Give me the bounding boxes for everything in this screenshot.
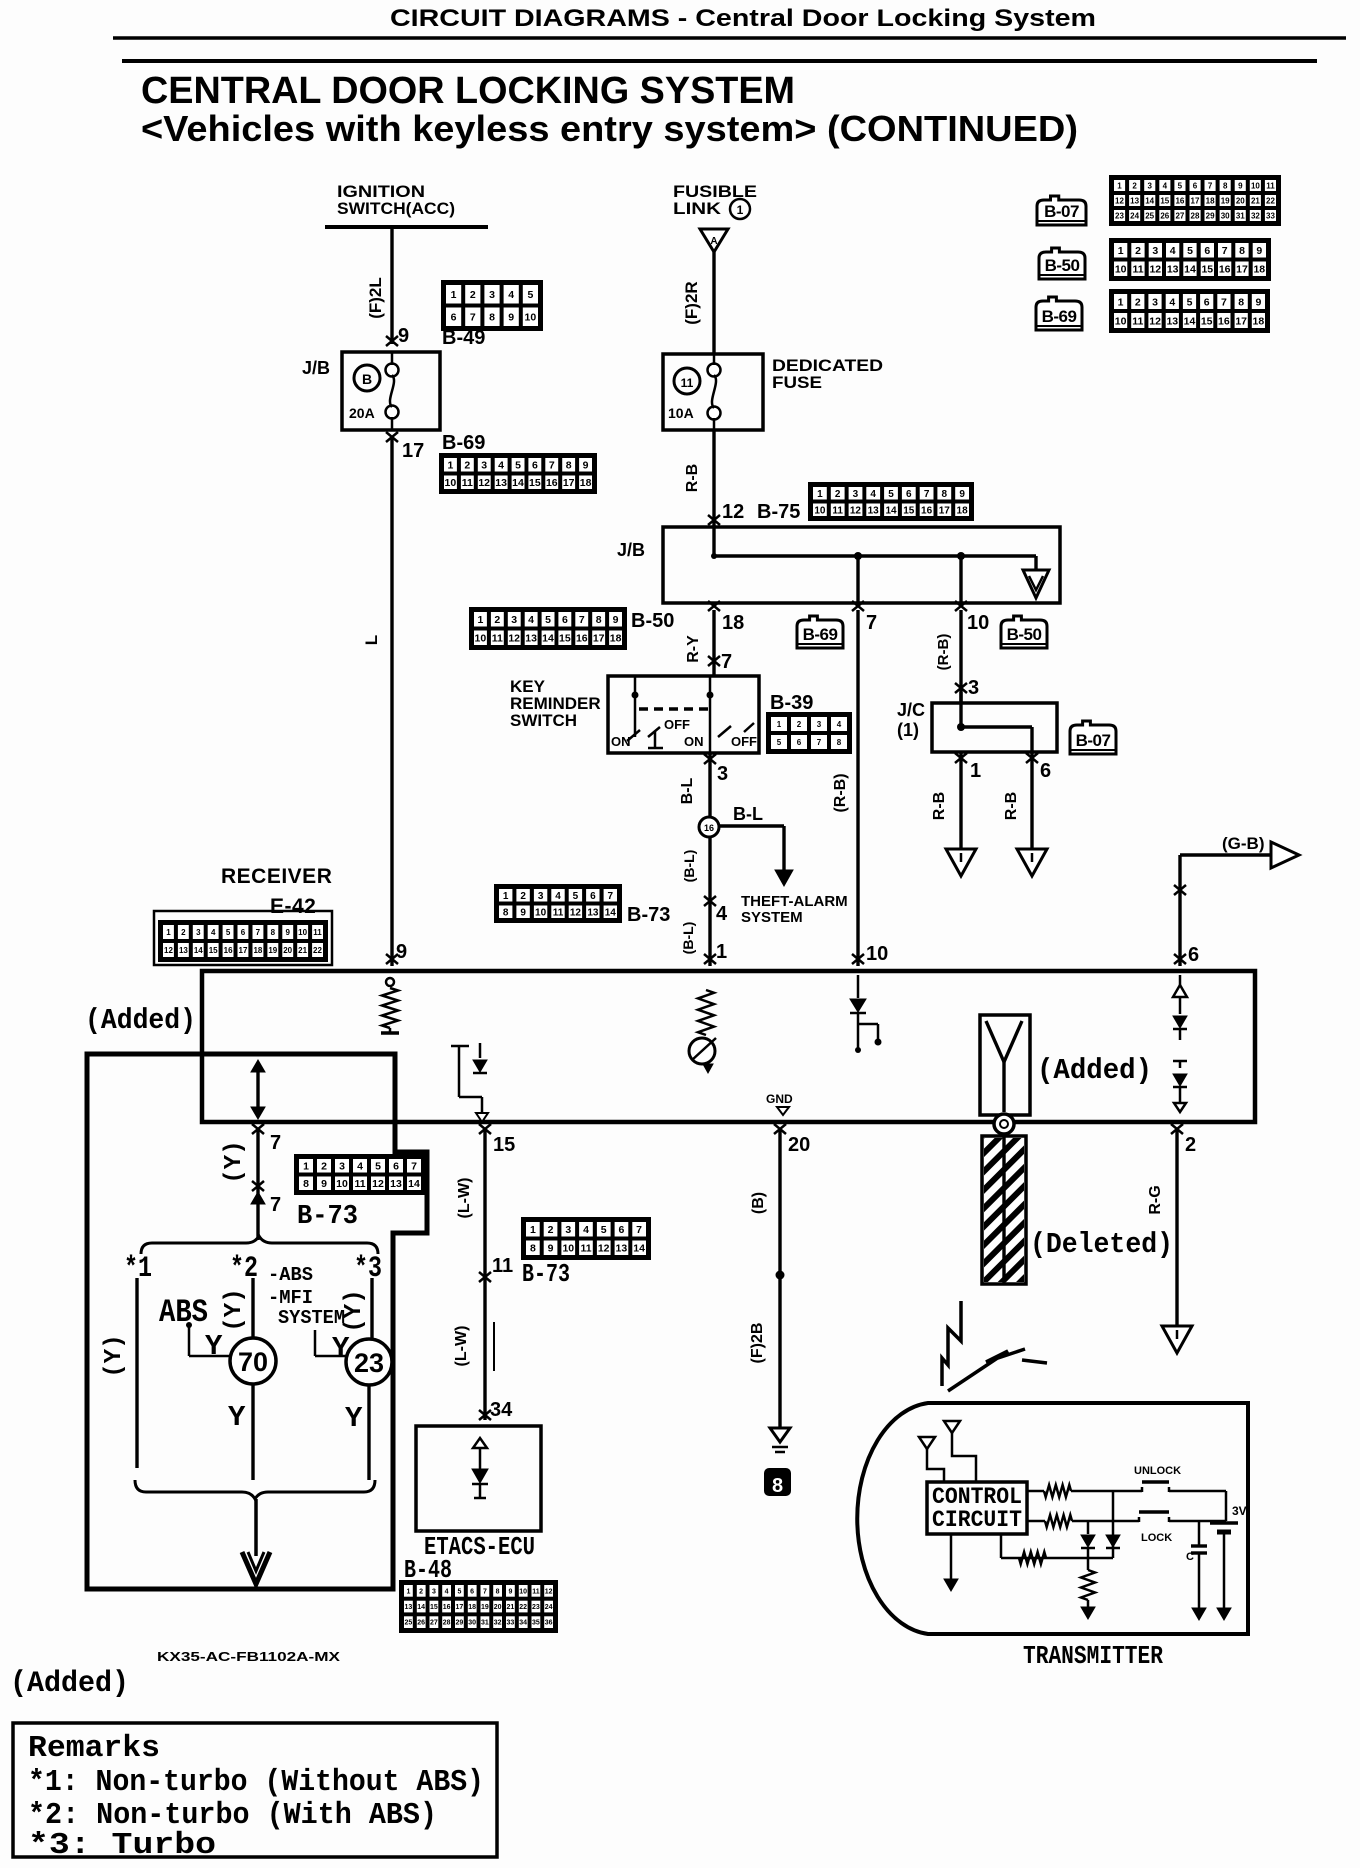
svg-text:CIRCUIT DIAGRAMS - Central Doo: CIRCUIT DIAGRAMS - Central Door Locking … [390, 5, 1096, 32]
svg-text:8: 8 [942, 489, 948, 500]
svg-text:11: 11 [1132, 264, 1143, 276]
svg-text:1: 1 [1117, 181, 1122, 190]
svg-text:7: 7 [270, 1194, 281, 1216]
svg-text:15: 15 [493, 1134, 515, 1156]
svg-text:20: 20 [283, 946, 292, 955]
svg-text:34: 34 [490, 1399, 513, 1421]
svg-text:28: 28 [443, 1620, 451, 1627]
svg-text:LINK: LINK [673, 199, 722, 218]
svg-text:B-07: B-07 [1044, 202, 1079, 221]
svg-text:(R-B): (R-B) [832, 773, 849, 812]
svg-text:12: 12 [850, 505, 862, 516]
svg-text:4: 4 [583, 1224, 589, 1236]
svg-text:J/B: J/B [617, 540, 645, 560]
svg-text:3: 3 [481, 460, 487, 472]
svg-text:18: 18 [1253, 315, 1265, 327]
svg-text:FUSE: FUSE [772, 373, 822, 392]
svg-text:8: 8 [503, 907, 509, 918]
svg-text:16: 16 [546, 477, 558, 489]
svg-text:7: 7 [1221, 296, 1227, 308]
svg-text:10: 10 [519, 1588, 527, 1595]
svg-text:7: 7 [1222, 245, 1228, 257]
svg-text:13: 13 [405, 1604, 413, 1611]
svg-text:15: 15 [1201, 264, 1213, 276]
svg-text:5: 5 [1187, 245, 1193, 257]
svg-text:(B): (B) [750, 1192, 767, 1214]
svg-text:6: 6 [906, 489, 912, 500]
svg-text:6: 6 [590, 891, 596, 902]
svg-text:E-42: E-42 [270, 895, 316, 918]
svg-text:30: 30 [468, 1620, 476, 1627]
svg-text:2: 2 [797, 720, 802, 729]
svg-text:B-L: B-L [733, 804, 763, 824]
svg-text:9: 9 [613, 614, 619, 626]
svg-text:10: 10 [445, 477, 457, 489]
svg-text:24: 24 [1130, 211, 1139, 220]
svg-text:6: 6 [1204, 245, 1210, 257]
svg-text:7: 7 [924, 489, 930, 500]
svg-text:7: 7 [483, 1588, 487, 1595]
svg-text:8: 8 [772, 1475, 783, 1497]
svg-text:2: 2 [1132, 181, 1137, 190]
svg-text:(F)2L: (F)2L [366, 277, 385, 319]
svg-text:16: 16 [443, 1604, 451, 1611]
svg-text:13: 13 [525, 633, 537, 645]
svg-text:5: 5 [1178, 181, 1183, 190]
svg-text:2: 2 [835, 489, 841, 500]
svg-text:14: 14 [512, 477, 524, 489]
svg-text:A: A [710, 236, 717, 247]
svg-text:5: 5 [888, 489, 894, 500]
svg-text:7: 7 [866, 612, 877, 634]
svg-text:12: 12 [508, 633, 520, 645]
svg-text:6: 6 [393, 1161, 399, 1173]
svg-text:J/C: J/C [897, 700, 925, 720]
svg-text:10: 10 [814, 505, 826, 516]
svg-text:6: 6 [618, 1224, 624, 1236]
svg-text:18: 18 [957, 505, 969, 516]
svg-text:(Added): (Added) [85, 1004, 196, 1037]
svg-text:8: 8 [1239, 245, 1245, 257]
svg-text:B-50: B-50 [1045, 256, 1080, 275]
svg-text:14: 14 [605, 907, 617, 918]
svg-text:CENTRAL DOOR LOCKING SYSTEM: CENTRAL DOOR LOCKING SYSTEM [141, 70, 795, 112]
svg-text:4: 4 [870, 489, 876, 500]
svg-text:16: 16 [1175, 196, 1184, 205]
svg-text:B-49: B-49 [442, 327, 485, 349]
svg-text:15: 15 [529, 477, 541, 489]
svg-text:3: 3 [717, 763, 728, 785]
svg-text:Remarks: Remarks [28, 1731, 160, 1766]
svg-text:21: 21 [298, 946, 307, 955]
svg-text:8: 8 [496, 1588, 500, 1595]
svg-text:12: 12 [1115, 196, 1124, 205]
svg-text:11: 11 [462, 477, 473, 489]
svg-text:3: 3 [339, 1161, 345, 1173]
svg-text:8: 8 [566, 460, 572, 472]
svg-text:20: 20 [494, 1604, 502, 1611]
svg-text:B-50: B-50 [631, 610, 674, 632]
svg-text:8: 8 [1223, 181, 1228, 190]
svg-text:28: 28 [1191, 211, 1200, 220]
svg-text:1: 1 [303, 1161, 309, 1173]
svg-text:2: 2 [520, 891, 526, 902]
svg-text:OFF: OFF [731, 734, 757, 749]
svg-text:12: 12 [478, 477, 490, 489]
svg-text:15: 15 [903, 505, 915, 516]
svg-text:25: 25 [405, 1620, 413, 1627]
svg-text:9: 9 [508, 312, 514, 324]
svg-text:(1): (1) [897, 720, 919, 740]
svg-text:22: 22 [313, 946, 322, 955]
svg-text:29: 29 [1206, 211, 1215, 220]
svg-text:22: 22 [519, 1604, 527, 1611]
svg-text:9: 9 [396, 941, 407, 963]
svg-text:(Y): (Y) [341, 1289, 368, 1332]
svg-text:5: 5 [457, 1588, 461, 1595]
svg-text:14: 14 [1184, 315, 1196, 327]
svg-text:8: 8 [530, 1243, 536, 1255]
svg-text:2: 2 [470, 289, 476, 301]
svg-text:B-69: B-69 [1042, 307, 1077, 326]
svg-text:14: 14 [1145, 196, 1154, 205]
svg-text:8: 8 [271, 928, 276, 937]
svg-text:5: 5 [515, 460, 521, 472]
svg-text:17: 17 [939, 505, 951, 516]
svg-text:*1: Non-turbo (Without ABS): *1: Non-turbo (Without ABS) [28, 1765, 484, 1800]
svg-text:3: 3 [511, 614, 517, 626]
svg-text:17: 17 [1191, 196, 1200, 205]
svg-text:1: 1 [166, 928, 171, 937]
svg-text:35: 35 [532, 1620, 540, 1627]
svg-text:17: 17 [593, 633, 605, 645]
svg-text:18: 18 [253, 946, 262, 955]
svg-text:32: 32 [1251, 211, 1260, 220]
svg-text:20: 20 [1236, 196, 1245, 205]
svg-text:15: 15 [209, 946, 218, 955]
svg-text:3: 3 [432, 1588, 436, 1595]
svg-text:3V: 3V [1232, 1504, 1247, 1518]
svg-text:1: 1 [716, 941, 727, 963]
svg-text:10A: 10A [668, 405, 694, 421]
svg-text:TRANSMITTER: TRANSMITTER [1023, 1641, 1163, 1671]
svg-text:10: 10 [535, 907, 547, 918]
svg-text:10: 10 [866, 943, 888, 965]
svg-text:SWITCH(ACC): SWITCH(ACC) [337, 199, 455, 218]
svg-text:KX35-AC-FB1102A-MX: KX35-AC-FB1102A-MX [157, 1649, 340, 1664]
svg-text:26: 26 [1160, 211, 1169, 220]
svg-text:9: 9 [1238, 181, 1243, 190]
svg-text:17: 17 [402, 440, 424, 462]
svg-text:2: 2 [321, 1161, 327, 1173]
svg-text:Y: Y [345, 1402, 363, 1435]
svg-text:17: 17 [1236, 264, 1248, 276]
svg-text:-ABS: -ABS [268, 1264, 313, 1286]
svg-text:5: 5 [601, 1224, 607, 1236]
svg-text:10: 10 [562, 1243, 574, 1255]
svg-text:11: 11 [492, 1255, 513, 1277]
svg-text:9: 9 [583, 460, 589, 472]
svg-text:17: 17 [563, 477, 575, 489]
svg-text:3: 3 [853, 489, 859, 500]
svg-text:16: 16 [576, 633, 588, 645]
svg-text:5: 5 [527, 289, 533, 301]
svg-text:31: 31 [1236, 211, 1245, 220]
svg-text:13: 13 [868, 505, 880, 516]
svg-text:18: 18 [580, 477, 592, 489]
svg-text:1: 1 [530, 1224, 536, 1236]
svg-text:18: 18 [1206, 196, 1215, 205]
svg-text:8: 8 [837, 738, 842, 747]
svg-text:2: 2 [1135, 245, 1141, 257]
svg-text:2: 2 [419, 1588, 423, 1595]
svg-text:(L-W): (L-W) [456, 1178, 473, 1219]
svg-text:6: 6 [241, 928, 246, 937]
svg-text:26: 26 [417, 1620, 425, 1627]
svg-text:R-B: R-B [684, 464, 701, 492]
svg-text:11: 11 [681, 376, 694, 390]
svg-text:7: 7 [411, 1161, 417, 1173]
svg-text:8: 8 [489, 312, 495, 324]
svg-text:4: 4 [211, 928, 216, 937]
svg-text:7: 7 [270, 1132, 281, 1154]
svg-text:10: 10 [1115, 264, 1127, 276]
svg-text:4: 4 [445, 1588, 449, 1595]
svg-text:*3: Turbo: *3: Turbo [28, 1828, 216, 1863]
svg-text:B-73: B-73 [627, 904, 670, 926]
svg-text:17: 17 [1235, 315, 1247, 327]
svg-text:11: 11 [313, 928, 322, 937]
svg-text:4: 4 [1170, 245, 1176, 257]
svg-text:3: 3 [1147, 181, 1152, 190]
svg-text:13: 13 [179, 946, 188, 955]
svg-text:11: 11 [553, 907, 564, 918]
svg-text:14: 14 [408, 1178, 420, 1190]
svg-text:Y: Y [205, 1330, 223, 1363]
svg-text:7: 7 [549, 460, 555, 472]
svg-text:5: 5 [545, 614, 551, 626]
svg-text:4: 4 [1169, 296, 1175, 308]
svg-text:5: 5 [573, 891, 579, 902]
svg-text:4: 4 [1163, 181, 1168, 190]
svg-text:(Added): (Added) [1037, 1054, 1152, 1087]
svg-text:16: 16 [1218, 315, 1230, 327]
svg-text:(Y): (Y) [221, 1288, 248, 1331]
svg-text:29: 29 [456, 1620, 464, 1627]
svg-text:OFF: OFF [664, 717, 690, 732]
svg-text:12: 12 [1149, 315, 1161, 327]
svg-text:5: 5 [1187, 296, 1193, 308]
svg-text:36: 36 [545, 1620, 553, 1627]
svg-text:B-39: B-39 [770, 692, 813, 714]
svg-text:1: 1 [970, 760, 981, 782]
svg-text:13: 13 [495, 477, 507, 489]
svg-text:10: 10 [298, 928, 307, 937]
svg-text:(R-B): (R-B) [935, 634, 952, 671]
svg-text:19: 19 [1221, 196, 1230, 205]
svg-text:(Y): (Y) [101, 1334, 128, 1377]
svg-text:4: 4 [555, 891, 561, 902]
svg-text:12: 12 [164, 946, 173, 955]
svg-text:21: 21 [507, 1604, 515, 1611]
svg-text:18: 18 [722, 612, 744, 634]
svg-text:7: 7 [636, 1224, 642, 1236]
svg-text:16: 16 [224, 946, 233, 955]
svg-text:12: 12 [372, 1178, 384, 1190]
svg-text:23: 23 [1115, 211, 1124, 220]
svg-text:1: 1 [451, 289, 457, 301]
svg-text:1: 1 [777, 720, 782, 729]
svg-text:1: 1 [1118, 296, 1124, 308]
svg-text:25: 25 [1145, 211, 1154, 220]
svg-text:3: 3 [968, 677, 979, 699]
svg-text:6: 6 [1188, 944, 1199, 966]
svg-text:4: 4 [837, 720, 842, 729]
svg-text:(L-W): (L-W) [453, 1326, 470, 1367]
svg-text:Y: Y [228, 1401, 246, 1434]
svg-text:SWITCH: SWITCH [510, 711, 577, 730]
svg-text:SYSTEM: SYSTEM [741, 909, 803, 926]
svg-text:4: 4 [498, 460, 504, 472]
svg-text:3: 3 [538, 891, 544, 902]
svg-text:10: 10 [967, 612, 989, 634]
svg-text:9: 9 [285, 928, 290, 937]
svg-text:14: 14 [194, 946, 203, 955]
svg-text:1: 1 [737, 203, 744, 217]
svg-text:1: 1 [503, 891, 509, 902]
svg-text:2: 2 [464, 460, 470, 472]
svg-text:6: 6 [1204, 296, 1210, 308]
svg-text:33: 33 [507, 1620, 515, 1627]
svg-text:7: 7 [608, 891, 614, 902]
svg-text:RECEIVER: RECEIVER [221, 865, 332, 888]
svg-text:32: 32 [494, 1620, 502, 1627]
svg-text:CIRCUIT: CIRCUIT [932, 1507, 1022, 1533]
svg-text:4: 4 [508, 289, 514, 301]
svg-text:18: 18 [1253, 264, 1265, 276]
svg-text:B-75: B-75 [757, 501, 800, 523]
svg-text:13: 13 [1166, 315, 1178, 327]
svg-text:(F)2R: (F)2R [682, 281, 701, 324]
svg-text:1: 1 [406, 1588, 410, 1595]
svg-text:23: 23 [532, 1604, 540, 1611]
svg-text:6: 6 [562, 614, 568, 626]
svg-text:10: 10 [1251, 181, 1260, 190]
svg-text:5: 5 [226, 928, 231, 937]
svg-text:9: 9 [520, 907, 526, 918]
svg-text:B-L: B-L [679, 777, 696, 804]
svg-text:9: 9 [1256, 245, 1262, 257]
svg-text:*3: *3 [354, 1252, 382, 1286]
svg-text:10: 10 [525, 312, 537, 324]
svg-text:16: 16 [704, 823, 714, 833]
svg-text:11: 11 [492, 633, 503, 645]
svg-text:19: 19 [268, 946, 277, 955]
svg-text:<Vehicles with keyless entry s: <Vehicles with keyless entry system> (CO… [141, 108, 1078, 149]
svg-text:(B-L): (B-L) [681, 850, 697, 883]
svg-text:LOCK: LOCK [1141, 1532, 1172, 1544]
svg-text:7: 7 [721, 651, 732, 673]
svg-text:20A: 20A [349, 405, 375, 421]
svg-text:2: 2 [1185, 1134, 1196, 1156]
svg-text:13: 13 [587, 907, 599, 918]
svg-text:7: 7 [817, 738, 822, 747]
svg-text:11: 11 [1266, 181, 1275, 190]
svg-text:9: 9 [548, 1243, 554, 1255]
svg-text:14: 14 [633, 1243, 645, 1255]
svg-text:22: 22 [1266, 196, 1275, 205]
svg-text:R-G: R-G [1147, 1185, 1164, 1214]
svg-text:3: 3 [565, 1224, 571, 1236]
svg-text:13: 13 [390, 1178, 402, 1190]
svg-text:11: 11 [354, 1178, 365, 1190]
svg-text:L: L [362, 635, 381, 645]
svg-text:(G-B): (G-B) [1222, 834, 1264, 853]
svg-text:R-B: R-B [931, 792, 948, 820]
svg-text:1: 1 [477, 614, 483, 626]
svg-text:27: 27 [430, 1620, 438, 1627]
svg-text:6: 6 [451, 312, 457, 324]
svg-text:B: B [362, 371, 372, 387]
svg-text:4: 4 [528, 614, 534, 626]
svg-text:31: 31 [481, 1620, 489, 1627]
svg-text:(Deleted): (Deleted) [1030, 1228, 1173, 1261]
svg-text:15: 15 [1201, 315, 1213, 327]
svg-text:70: 70 [238, 1347, 268, 1377]
svg-text:15: 15 [559, 633, 571, 645]
svg-text:8: 8 [303, 1178, 309, 1190]
svg-text:17: 17 [456, 1604, 464, 1611]
svg-text:B-07: B-07 [1076, 731, 1111, 750]
svg-text:B-73: B-73 [522, 1259, 570, 1289]
svg-text:10: 10 [475, 633, 487, 645]
svg-text:11: 11 [832, 505, 843, 516]
svg-text:GND: GND [766, 1092, 793, 1106]
svg-text:9: 9 [1255, 296, 1261, 308]
svg-text:B-50: B-50 [1007, 625, 1042, 644]
svg-text:19: 19 [481, 1604, 489, 1611]
svg-text:9: 9 [321, 1178, 327, 1190]
svg-text:33: 33 [1266, 211, 1275, 220]
svg-text:9: 9 [508, 1588, 512, 1595]
svg-text:3: 3 [1152, 245, 1158, 257]
svg-text:12: 12 [722, 501, 744, 523]
svg-text:4: 4 [357, 1161, 363, 1173]
svg-text:2: 2 [1135, 296, 1141, 308]
svg-text:(F)2B: (F)2B [749, 1323, 766, 1364]
svg-text:8: 8 [1238, 296, 1244, 308]
svg-text:13: 13 [1130, 196, 1139, 205]
svg-text:5: 5 [375, 1161, 381, 1173]
svg-text:6: 6 [1040, 760, 1051, 782]
svg-text:18: 18 [610, 633, 622, 645]
svg-text:R-Y: R-Y [685, 635, 702, 663]
svg-text:7: 7 [256, 928, 261, 937]
svg-text:11: 11 [1132, 315, 1143, 327]
svg-text:14: 14 [1184, 264, 1196, 276]
svg-text:C: C [1186, 1551, 1194, 1563]
svg-text:18: 18 [468, 1604, 476, 1611]
svg-text:6: 6 [532, 460, 538, 472]
svg-text:10: 10 [1115, 315, 1127, 327]
svg-text:16: 16 [921, 505, 933, 516]
svg-text:R-B: R-B [1003, 792, 1020, 820]
svg-text:ON: ON [684, 734, 704, 749]
svg-text:THEFT-ALARM: THEFT-ALARM [741, 893, 848, 910]
svg-text:B-73: B-73 [297, 1202, 358, 1232]
svg-text:9: 9 [398, 325, 409, 347]
svg-text:14: 14 [885, 505, 897, 516]
